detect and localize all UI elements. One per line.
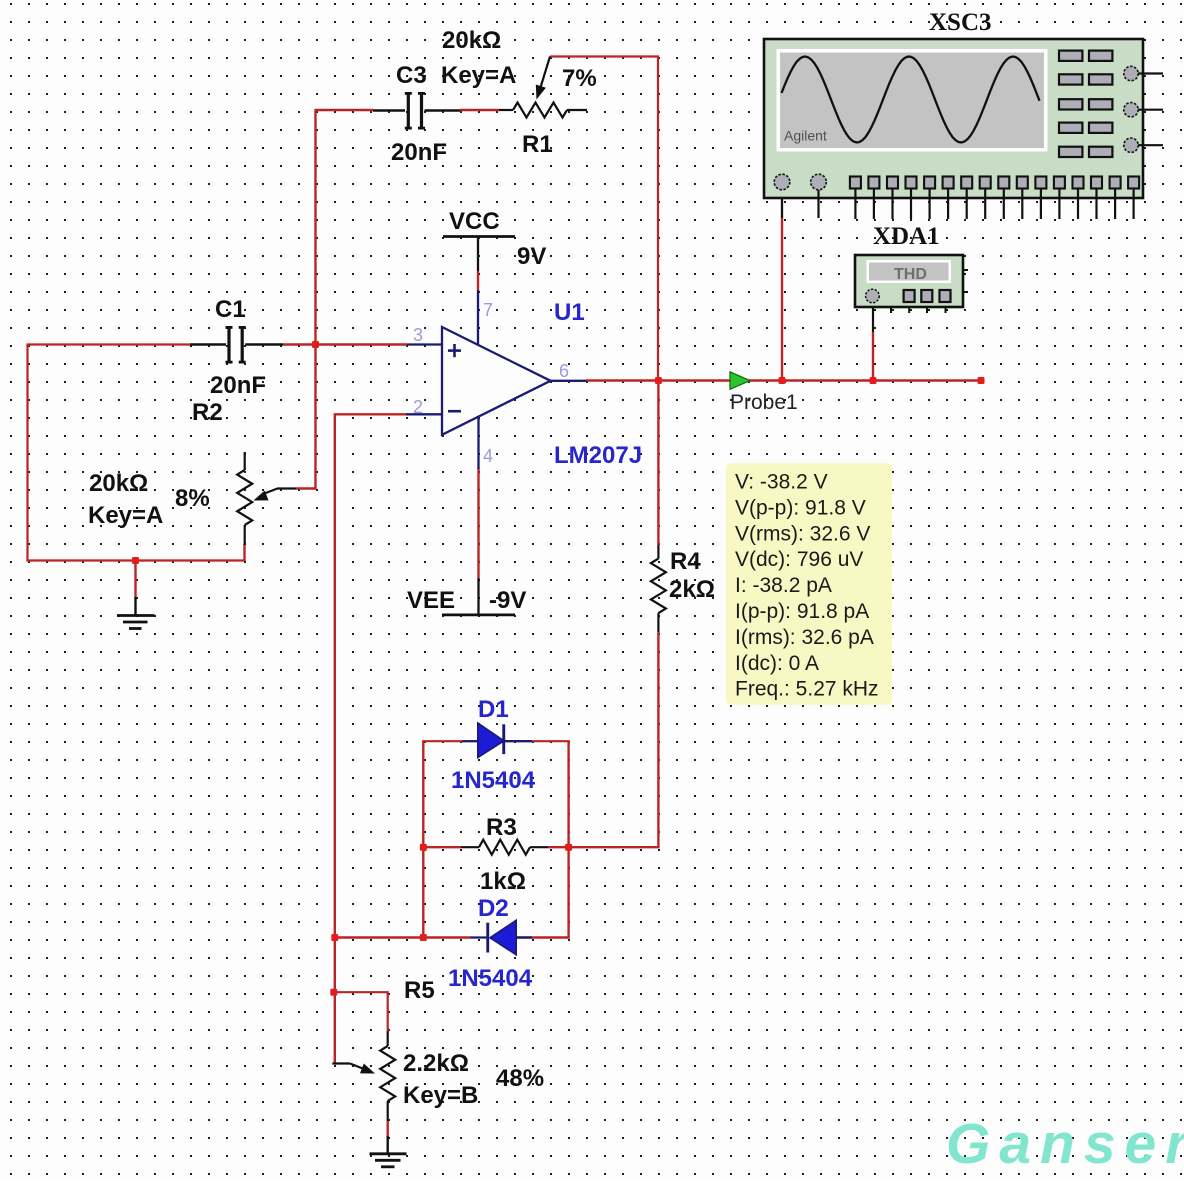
- svg-text:V(p-p): 91.8 V: V(p-p): 91.8 V: [735, 496, 866, 519]
- potentiometer R1: [499, 57, 587, 118]
- svg-text:3: 3: [413, 325, 423, 345]
- svg-text:20nF: 20nF: [391, 139, 447, 166]
- probe Probe1 (green arrow): [730, 372, 750, 389]
- op-amp U1: [406, 290, 587, 469]
- svg-text:1kΩ: 1kΩ: [480, 868, 526, 895]
- svg-text:D1: D1: [478, 696, 509, 723]
- wire: R4 top vertical red from output node: [657, 381, 659, 546]
- svg-text:Ganser: Ganser: [946, 1112, 1184, 1176]
- VEE power symbol: [442, 578, 515, 615]
- capacitor C1: [190, 326, 283, 364]
- svg-text:1N5404: 1N5404: [448, 965, 533, 992]
- svg-text:C1: C1: [215, 296, 246, 323]
- svg-text:8%: 8%: [175, 485, 210, 512]
- wire: XDA1 input drop (black upper part): [872, 302, 874, 332]
- node: output net right end: [978, 377, 985, 384]
- svg-text:Key=A: Key=A: [441, 62, 516, 89]
- svg-text:THD: THD: [894, 266, 927, 283]
- wire: R3 right red segment extending to R4: [548, 846, 660, 848]
- wire: oscilloscope channel A drop to output net: [781, 218, 783, 381]
- svg-text:2.2kΩ: 2.2kΩ: [403, 1050, 469, 1077]
- svg-text:D2: D2: [478, 895, 509, 922]
- svg-text:LM207J: LM207J: [554, 442, 642, 469]
- svg-text:20kΩ: 20kΩ: [89, 470, 148, 497]
- oscilloscope XSC3: [764, 39, 1163, 219]
- svg-text:-9V: -9V: [489, 587, 526, 614]
- svg-text:1N5404: 1N5404: [451, 767, 536, 794]
- wire: ground stub under R2 bottom net: [134, 561, 136, 599]
- wire: R5 lower red segment to ground: [387, 1121, 389, 1136]
- potentiometer R5: [332, 1031, 395, 1121]
- wire: VEE red segment from pin 4: [477, 468, 479, 578]
- wire: R1 wiper to output node (top run and vertical drop): [550, 57, 658, 381]
- node: R3 right junction: [565, 844, 572, 851]
- wire: limiter box right vertical: [567, 740, 569, 938]
- svg-text:XDA1: XDA1: [873, 223, 940, 250]
- svg-text:Agilent: Agilent: [784, 128, 827, 144]
- node: feedback rail / R5 junction: [330, 989, 337, 996]
- svg-text:2: 2: [413, 397, 423, 417]
- ground symbol under R2 net: [117, 597, 155, 629]
- wire: VCC red segment to pin 7: [477, 271, 479, 290]
- svg-text:Probe1: Probe1: [730, 391, 798, 414]
- svg-text:6: 6: [559, 361, 569, 381]
- node: feedback rail / D2 junction: [331, 934, 338, 941]
- wire: C1 left feedback loop: [28, 345, 245, 561]
- svg-text:7: 7: [483, 300, 493, 320]
- svg-text:48%: 48%: [496, 1065, 544, 1092]
- wire: + input node vertical (junction to wiper): [314, 345, 316, 490]
- potentiometer R2: [237, 452, 296, 545]
- svg-text:9V: 9V: [517, 243, 546, 270]
- wire: limiter box left vertical: [422, 740, 424, 938]
- node: ground junction under R2: [132, 557, 139, 564]
- wire: - input horizontal red segment: [335, 413, 406, 415]
- capacitor C3: [373, 92, 460, 130]
- svg-text:U1: U1: [554, 299, 585, 326]
- VCC power symbol: [443, 237, 515, 272]
- wire: XDA1 input drop (red lower part): [872, 332, 874, 381]
- node: output junction at R4: [655, 377, 662, 384]
- wire: D1 top branch red segments and limiter box verticals: [423, 740, 462, 742]
- svg-text:R1: R1: [522, 131, 553, 158]
- svg-text:I(rms): 32.6 pA: I(rms): 32.6 pA: [735, 626, 874, 649]
- svg-text:I(p-p): 91.8 pA: I(p-p): 91.8 pA: [735, 600, 869, 623]
- svg-text:V(dc): 796 uV: V(dc): 796 uV: [735, 548, 863, 571]
- svg-text:Key=B: Key=B: [403, 1082, 478, 1109]
- svg-text:20kΩ: 20kΩ: [442, 27, 501, 54]
- node: output junction at XDA1 drop: [870, 377, 877, 384]
- node: D2 left junction: [420, 934, 427, 941]
- svg-text:R4: R4: [670, 548, 701, 575]
- svg-text:C3: C3: [396, 62, 427, 89]
- resistor R3: [461, 840, 548, 855]
- wire: C3 to R1 segment: [460, 109, 499, 111]
- svg-text:R3: R3: [486, 814, 517, 841]
- svg-text:4: 4: [483, 446, 493, 466]
- wire: C3/R1 top branch left vertical from C1 node: [314, 110, 316, 345]
- yellow measurement annotation box: [726, 463, 892, 705]
- distortion analyzer XDA1: [855, 255, 968, 313]
- svg-text:7%: 7%: [562, 65, 597, 92]
- svg-text:I: -38.2 pA: I: -38.2 pA: [735, 574, 832, 597]
- svg-text:VEE: VEE: [407, 587, 455, 614]
- wire: R3 left red segment: [423, 846, 461, 848]
- svg-text:20nF: 20nF: [210, 372, 266, 399]
- resistor R4: [651, 545, 666, 632]
- svg-text:2kΩ: 2kΩ: [669, 576, 715, 603]
- svg-text:VCC: VCC: [449, 208, 500, 235]
- wire: C1 right lead to + input node: [283, 343, 407, 345]
- svg-text:V: -38.2 V: V: -38.2 V: [735, 471, 828, 494]
- svg-text:R2: R2: [192, 399, 223, 426]
- wire: oscilloscope channel A stub (black): [781, 189, 783, 219]
- wire: R5 branch from feedback rail: [334, 992, 388, 1031]
- svg-text:R5: R5: [404, 977, 435, 1004]
- wire: - input long vertical feedback rail: [334, 413, 336, 1063]
- diode D2: [470, 920, 532, 955]
- node: limiter box left top (R3 left): [420, 844, 427, 851]
- svg-text:XSC3: XSC3: [929, 9, 992, 36]
- wire: D2 bottom branch red segments: [334, 936, 470, 938]
- svg-text:I(dc): 0 A: I(dc): 0 A: [735, 652, 819, 675]
- svg-text:V(rms): 32.6 V: V(rms): 32.6 V: [735, 522, 870, 545]
- wire: R4 bottom vertical red: [657, 632, 659, 848]
- ground symbol under R5: [370, 1136, 407, 1167]
- wire: top branch horizontal into C3: [315, 109, 374, 111]
- node: output junction at scope drop: [779, 377, 786, 384]
- svg-text:Freq.: 5.27 kHz: Freq.: 5.27 kHz: [735, 678, 879, 701]
- diode D1: [462, 723, 532, 758]
- svg-text:Key=A: Key=A: [88, 502, 163, 529]
- node: + input junction (C1 / feedback / pin3): [312, 341, 319, 348]
- wire: R2 bottom lead red corner: [243, 544, 245, 561]
- wire: R2 wiper horizontal red segment: [296, 487, 317, 489]
- wire: output net horizontal run to right end: [586, 379, 981, 381]
